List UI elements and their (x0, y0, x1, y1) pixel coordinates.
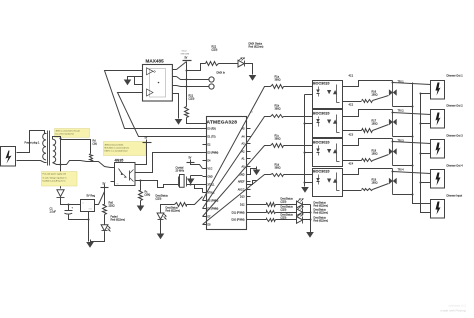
svg-text:Gnd: Gnd (89, 209, 92, 211)
resistor R18 180Ω gate (362, 159, 373, 162)
connector Dimmer Input (431, 194, 463, 219)
svg-text:Red (622nm): Red (622nm) (314, 220, 329, 223)
svg-text:DMX In: DMX In (217, 71, 226, 75)
svg-text:D13: D13 (240, 196, 245, 199)
svg-text:MAX485: MAX485 (146, 59, 165, 64)
LED DmxStatus Red (622nm) mid (157, 213, 164, 219)
svg-text:4C3: 4C3 (349, 134, 354, 137)
LED DMX Status Red (622nm) (238, 60, 244, 67)
LED DmxStatus Red (622nm) #2 (297, 209, 303, 216)
note 2 yellow (42, 172, 78, 187)
opto U3 MOC3020 (313, 81, 343, 109)
svg-text:DMX in is a standard fixture: DMX in is a standard fixture (105, 150, 128, 153)
svg-text:1.0uF: 1.0uF (50, 211, 57, 214)
ground right of ATMEGA (253, 170, 261, 176)
ground below DMX status LED (249, 75, 257, 81)
wire opto cathode to ground bus (305, 123, 313, 125)
ground MAX485 left (124, 80, 132, 86)
wire to opto U5 input (284, 145, 313, 147)
opto U6 MOC3020 (313, 169, 343, 197)
svg-text:(10k): (10k) (145, 194, 151, 197)
opto U4 MOC3020 (313, 110, 343, 138)
svg-text:180Ω: 180Ω (372, 153, 378, 156)
resistor R21 (120) termination (185, 107, 189, 118)
wire triac MT1 to bus A (393, 194, 413, 196)
wire triac MT2 to output (393, 83, 431, 85)
svg-text:Red (622nm): Red (622nm) (111, 219, 126, 222)
capacitor C1 1.0uF (50, 205, 89, 220)
svg-text:Dimmer Input: Dimmer Input (447, 194, 463, 198)
svg-text:TRI 4: TRI 4 (398, 169, 405, 172)
note 3 yellow (104, 142, 146, 156)
svg-text:Red (622nm): Red (622nm) (314, 212, 329, 215)
LED DmxStatus Red (622nm) #3 (297, 217, 303, 224)
wire to opto U3 input (284, 86, 313, 88)
svg-text:390Ω: 390Ω (275, 108, 281, 111)
wire secondary top down (to diode) (60, 139, 62, 189)
wire AC bus B (421, 94, 431, 213)
ground below MAX485 right (175, 119, 183, 125)
voltage regulator 5V Reg (81, 194, 96, 212)
svg-text:TRI 2: TRI 2 (398, 110, 405, 113)
svg-text:Dimmer Out 2: Dimmer Out 2 (447, 104, 464, 108)
resistor R17 180Ω gate (362, 129, 373, 133)
svg-text:MOC3021 is connected) here: MOC3021 is connected) here (105, 147, 130, 150)
wire opto out2 to gate resistor (343, 190, 362, 192)
wire RE/DE to ground (128, 77, 139, 79)
svg-text:Dimmer Out 1: Dimmer Out 1 (447, 74, 464, 78)
svg-text:MOC3020: MOC3020 (313, 112, 330, 116)
svg-text:(1k): (1k) (93, 143, 97, 146)
svg-text:MOC3020: MOC3020 (313, 170, 330, 174)
svg-text:handled in post-Bring 7v 5v: handled in post-Bring 7v 5v (43, 180, 66, 183)
svg-text:Dimmer Out 4: Dimmer Out 4 (447, 164, 464, 168)
svg-text:180Ω: 180Ω (372, 94, 378, 97)
wire AC bus A (413, 83, 431, 204)
wire reg gnd down (88, 212, 90, 242)
wire diode to rail (61, 198, 81, 205)
power +5V to ATMEGA VCC (187, 162, 195, 164)
junction dots on +5V rail (186, 70, 188, 72)
IC U1 ATMEGA328 (203, 117, 251, 230)
svg-text:AREF: AREF (238, 181, 245, 184)
svg-text:(220): (220) (281, 209, 287, 212)
wire 4N35 base pin to +5V (135, 143, 147, 165)
resistor Rd (1k) (90, 154, 93, 162)
svg-text:180Ω: 180Ω (372, 123, 378, 126)
ground Rc (137, 206, 145, 212)
wire Rd to 4N35 anode (91, 162, 115, 168)
svg-text:D1 (TX): D1 (TX) (208, 137, 216, 139)
wire D8 to opto channel 4 (203, 175, 271, 225)
wire MOC ground bus (304, 95, 306, 187)
wire opto out to triac rail (343, 81, 393, 87)
svg-text:Dimmer Out 3: Dimmer Out 3 (447, 134, 464, 138)
connector Dimmer Out 1 (431, 74, 464, 100)
svg-text:Red (622nm): Red (622nm) (166, 210, 181, 213)
svg-text:GND: GND (208, 177, 213, 179)
wire triac MT1 to bus A (393, 106, 413, 108)
resistor Rs6 220 (104, 188, 106, 205)
wire 4N35 emitter to Rc (135, 181, 141, 191)
wire output neutral to bus B (421, 93, 431, 95)
resistor DmxStatus 220 #2 (247, 212, 267, 214)
svg-text:4C2: 4C2 (349, 104, 354, 107)
wire LED cathode bus to ground (310, 205, 312, 232)
wire triac MT1 to bus A (393, 165, 413, 167)
resistor R1b 390Ω (271, 115, 284, 118)
power +5V net above MAX485 (181, 50, 192, 61)
ground power section (86, 242, 94, 248)
connector Dimmer Out 3 (431, 134, 464, 159)
wire to opto U4 input (284, 116, 313, 118)
svg-text:390Ω: 390Ω (275, 167, 281, 170)
power +5V at 4N35 (143, 142, 152, 144)
IC U2 MAX485 (139, 59, 177, 102)
wire +5V vertical rail (186, 62, 188, 107)
LED DmxStatus Red (622nm) #1 (297, 201, 303, 208)
svg-text:390Ω: 390Ω (275, 79, 281, 82)
svg-text:Red (622nm): Red (622nm) (314, 205, 329, 208)
ground MOC bus (301, 187, 309, 193)
wire GND right of ATMEGA (247, 169, 257, 175)
svg-text:5V: 5V (185, 58, 188, 60)
power +5V post-reg (101, 187, 109, 189)
wire AREF loop (247, 181, 257, 185)
resistor R1c 390Ω (271, 144, 284, 148)
connector Dimmer Out 4 (431, 164, 464, 189)
wire opto out2 to gate resistor (343, 101, 362, 103)
transformer T1 (43, 131, 56, 166)
resistor R19 180Ω gate (362, 189, 373, 191)
svg-text:made with Fritzing: made with Fritzing (441, 309, 466, 313)
wire D5 to opto channel 1 (203, 87, 271, 201)
wire triac MT2 to output (393, 142, 431, 144)
wire triac MT1 to bus A (393, 136, 413, 138)
svg-text:ATMEGA328: ATMEGA328 (207, 120, 238, 126)
svg-text:5V Reg: 5V Reg (87, 194, 96, 198)
connector Power plug 1 (1, 141, 40, 167)
ground LED stack (306, 232, 314, 238)
svg-text:MOC3020: MOC3020 (313, 82, 330, 86)
triac TRI 4 (389, 169, 404, 195)
wire D6 to opto channel 2 (203, 117, 271, 209)
svg-text:(220): (220) (212, 49, 218, 52)
wire triac MT2 to output (393, 113, 431, 115)
ground mid LED (157, 234, 165, 240)
triac TRI 3 (389, 139, 404, 166)
svg-text:(220): (220) (281, 201, 287, 204)
wire MAX485 RO to ATMEGA D0 (105, 71, 203, 129)
svg-text:Power plug 1: Power plug 1 (25, 141, 40, 145)
wire VCC to +5V (177, 62, 187, 70)
resistor R1d 390Ω (271, 174, 284, 177)
svg-text:4N35 is connected to this (4): 4N35 is connected to this (4) (56, 130, 80, 133)
wire 4N35 pin2 stub (111, 181, 115, 183)
svg-text:MOC3020: MOC3020 (313, 141, 330, 145)
svg-text:Red (622nm): Red (622nm) (249, 45, 264, 49)
wire output neutral to bus B (421, 153, 431, 155)
wire secondary bottom S-curve (53, 161, 91, 165)
svg-text:bus of the transformer: bus of the transformer (56, 133, 75, 136)
wire emitter to crystal rail (141, 181, 179, 188)
wire output neutral to bus B (421, 182, 431, 184)
LED Faded Red (622nm) (101, 225, 108, 231)
resistor DmxStatus 220 #1 (247, 204, 267, 206)
svg-text:(220): (220) (281, 217, 287, 220)
svg-text:5V: 5V (145, 138, 148, 140)
wire opto out to triac rail (343, 110, 393, 117)
svg-text:4C4: 4C4 (349, 163, 354, 166)
opto U5 MOC3020 (313, 139, 343, 167)
svg-text:D3 (PWM): D3 (PWM) (208, 153, 219, 155)
resistor R1a 390Ω (271, 85, 284, 89)
note 1 yellow (55, 129, 90, 138)
wire opto out2 to gate resistor (343, 160, 362, 162)
wire opto out to triac rail (343, 169, 393, 175)
resistor DmxStatus 220 #3 (247, 219, 267, 221)
svg-text:(220): (220) (156, 198, 162, 201)
diode D1 (57, 190, 64, 197)
svg-text:D11 (PWM): D11 (PWM) (232, 212, 245, 215)
svg-text:5V: 5V (103, 184, 106, 186)
wire triac MT2 to output (393, 172, 431, 174)
wire opto cathode to ground bus (305, 182, 313, 184)
svg-text:In: In (83, 203, 84, 205)
svg-text:390Ω: 390Ω (275, 138, 281, 141)
wire opto cathode to ground bus (305, 94, 313, 96)
resistor Rc (10k) (139, 191, 143, 201)
wire D7 to opto channel 3 (203, 146, 271, 217)
svg-text:D10 (PWM): D10 (PWM) (231, 219, 244, 222)
resistor R16 180Ω gate (362, 100, 373, 103)
opto U6 4N35 (115, 159, 136, 186)
svg-text:Post-side power supply with: Post-side power supply with (43, 173, 66, 176)
triac TRI 2 (389, 110, 404, 137)
svg-text:4C1: 4C1 (349, 75, 354, 78)
svg-text:5V: 5V (189, 158, 192, 160)
svg-text:D12: D12 (240, 204, 245, 207)
wire 4N35 collector to ATMEGA D3 (135, 153, 203, 173)
svg-text:180Ω: 180Ω (372, 182, 378, 185)
svg-text:D0 (RX): D0 (RX) (208, 129, 217, 131)
wire opto out to triac rail (343, 139, 393, 146)
wire opto out2 to gate resistor (343, 130, 362, 132)
svg-text:4N35: 4N35 (115, 159, 124, 163)
wire MAX485 DI to ATMEGA D1 (118, 93, 203, 137)
crystal X1 20 MHz (176, 167, 203, 193)
svg-text:5v rails. Voltage regulation i: 5v rails. Voltage regulation is (43, 177, 67, 180)
svg-text:(120): (120) (189, 98, 195, 101)
ground near crystal (191, 175, 203, 177)
svg-text:SHTGMB: SHTGMB (181, 54, 190, 56)
svg-text:schematic v1.2: schematic v1.2 (449, 304, 467, 308)
wire reg out to +5V (95, 189, 105, 205)
connector Dimmer Out 2 (431, 104, 464, 129)
resistor R22 (220) (187, 64, 206, 71)
svg-text:Smart: Smart (182, 50, 188, 53)
svg-text:VCC: VCC (208, 169, 213, 171)
svg-text:220Ω: 220Ω (109, 205, 115, 208)
wire to opto U6 input (284, 174, 313, 176)
wire MAX485 pin to ground right (177, 94, 179, 119)
svg-text:4N35 (instead of 4n35,: 4N35 (instead of 4n35, (105, 144, 125, 147)
triac TRI 1 (389, 81, 404, 107)
wire plug to transformer primary (17, 131, 47, 153)
wire opto cathode to ground bus (305, 152, 313, 154)
wire secondary top to Rd (53, 137, 91, 154)
svg-text:20 MHz: 20 MHz (176, 170, 185, 173)
wire output neutral to bus B (421, 123, 431, 125)
